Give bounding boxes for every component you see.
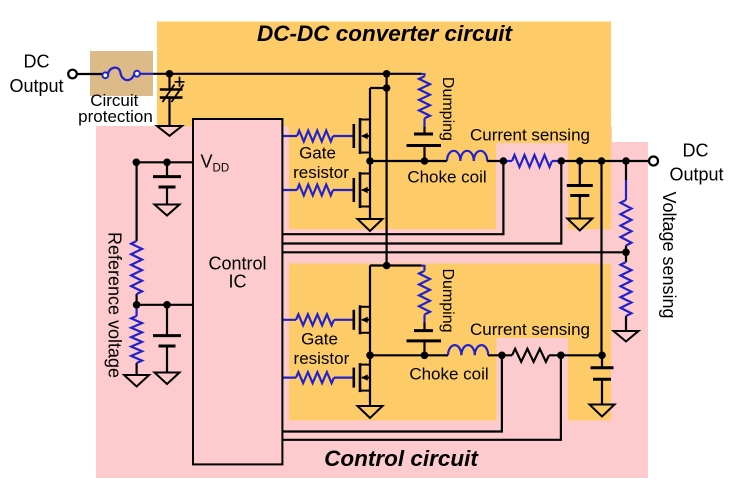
svg-text:Dumping: Dumping — [439, 77, 456, 141]
svg-text:DC: DC — [683, 141, 709, 161]
svg-text:DC: DC — [24, 52, 50, 72]
svg-text:IC: IC — [229, 272, 247, 292]
svg-text:DC-DC converter circuit: DC-DC converter circuit — [257, 21, 514, 46]
svg-text:protection: protection — [78, 107, 153, 126]
svg-text:Control: Control — [208, 253, 266, 273]
svg-text:Current sensing: Current sensing — [470, 125, 590, 144]
svg-text:Gate: Gate — [301, 329, 338, 348]
svg-text:resistor: resistor — [294, 349, 350, 368]
svg-text:Output: Output — [9, 76, 63, 96]
svg-text:Current sensing: Current sensing — [470, 320, 590, 339]
svg-text:Choke coil: Choke coil — [407, 167, 486, 186]
svg-text:Voltage sensing: Voltage sensing — [659, 191, 679, 318]
svg-text:Gate: Gate — [299, 144, 336, 163]
svg-text:Choke coil: Choke coil — [409, 364, 488, 383]
svg-text:Control circuit: Control circuit — [324, 446, 479, 471]
svg-text:Reference voltage: Reference voltage — [105, 232, 125, 378]
svg-text:Output: Output — [669, 165, 723, 185]
svg-text:resistor: resistor — [293, 163, 349, 182]
svg-text:Dumping: Dumping — [439, 268, 456, 332]
